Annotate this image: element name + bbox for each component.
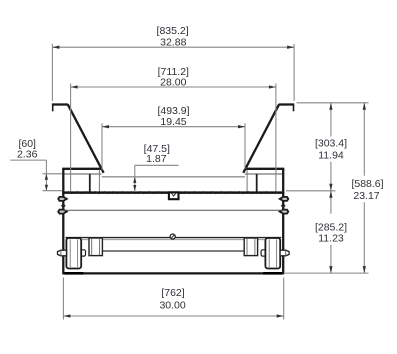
- left axle hub with nose: [58, 250, 67, 256]
- left corner block inner vertical thick: [89, 174, 91, 192]
- right axle hub with nose: [280, 250, 289, 256]
- left corner block inner vertical thin: [98, 170, 100, 192]
- left lip stub: [52, 104, 54, 112]
- grease fitting bump on tube: [170, 234, 175, 239]
- roller tube top second edge: [66, 239, 282, 241]
- body left side edge: [62, 169, 64, 275]
- wheel contact darkening right: [263, 272, 282, 275]
- dimension 711.2 extension right: [275, 84, 277, 192]
- center latch: [169, 192, 179, 199]
- svg-text:[285.2]: [285.2]: [315, 221, 347, 233]
- right guide roller: [244, 238, 257, 256]
- right hopper wall: [243, 104, 279, 173]
- svg-text:11.94: 11.94: [318, 149, 344, 161]
- right lip stub: [293, 104, 295, 112]
- right corner block top: [245, 168, 284, 170]
- roller tube top edge: [66, 237, 282, 239]
- dimension 60 extension top: [43, 173, 63, 175]
- wheel contact darkening left: [65, 272, 84, 275]
- right hinge pin lower: [280, 210, 289, 214]
- left guide roller: [89, 238, 102, 256]
- right bottom extension line: [285, 272, 369, 274]
- dimension 493.9 line: [102, 126, 245, 128]
- dimension 835.2 line: [52, 46, 294, 48]
- left edge diamond lug: [61, 203, 66, 208]
- svg-text:[303.4]: [303.4]: [315, 138, 347, 150]
- body top hatched edge: [62, 191, 284, 194]
- left axle inner stub: [80, 250, 86, 256]
- svg-text:[588.6]: [588.6]: [351, 178, 383, 190]
- right edge diamond lug: [281, 203, 286, 208]
- body bottom edge: [63, 272, 283, 274]
- right corner block inner vertical thin: [246, 170, 248, 192]
- dimension 303.4 line: [330, 103, 332, 137]
- right wheel drum: [265, 238, 280, 269]
- left hinge pin upper: [58, 197, 67, 201]
- dimension 285.2 line: [330, 191, 332, 273]
- svg-text:30.00: 30.00: [159, 299, 185, 311]
- mid body seam line: [63, 209, 283, 211]
- right corner block inner vertical thick: [256, 174, 258, 192]
- left wheel drum: [66, 238, 81, 269]
- left corner block inner horizontal: [63, 173, 101, 175]
- svg-text:1.87: 1.87: [146, 153, 167, 165]
- left corner block top: [62, 168, 101, 170]
- dimension 711.2 line: [71, 86, 276, 88]
- dimension 493.9 extension left: [101, 123, 103, 170]
- right corner block inner horizontal: [245, 173, 283, 175]
- dimension 835.2 extension left: [51, 44, 53, 101]
- dimension 588.6 line: [363, 103, 365, 273]
- right lip (flared top of right hopper wall): [279, 103, 294, 105]
- right middle extension line: [286, 190, 336, 192]
- svg-text:[835.2]: [835.2]: [157, 25, 189, 37]
- roller tube bottom edge: [102, 250, 245, 252]
- dimension 711.2 extension left: [70, 84, 72, 192]
- right axle inner stub: [261, 250, 267, 256]
- dimension 60 leader: [10, 159, 46, 161]
- dimension 60 extension bottom: [43, 190, 63, 192]
- left hopper wall: [68, 104, 104, 173]
- dimension 47.5 leader: [135, 164, 179, 166]
- dimension 493.9 extension right: [244, 123, 246, 169]
- left hinge pin lower: [58, 210, 67, 214]
- inner rim line between walls: [102, 176, 245, 178]
- left lip (flared top of left hopper wall): [52, 103, 68, 105]
- dimension 762 extension left: [62, 278, 64, 320]
- svg-text:28.00: 28.00: [160, 77, 186, 89]
- svg-text:19.45: 19.45: [160, 116, 186, 128]
- svg-text:11.23: 11.23: [318, 233, 344, 245]
- dimension 762 extension right: [283, 278, 285, 320]
- right hinge pin upper: [280, 197, 289, 201]
- dimension 762 line: [63, 315, 283, 317]
- svg-text:32.88: 32.88: [160, 37, 186, 49]
- svg-text:2.36: 2.36: [17, 149, 38, 161]
- svg-text:23.17: 23.17: [353, 190, 379, 202]
- body right side edge: [282, 169, 284, 275]
- svg-text:[493.9]: [493.9]: [157, 105, 189, 117]
- svg-text:[762]: [762]: [161, 287, 184, 299]
- right top extension line: [297, 102, 369, 104]
- dimension 835.2 extension right: [293, 44, 295, 101]
